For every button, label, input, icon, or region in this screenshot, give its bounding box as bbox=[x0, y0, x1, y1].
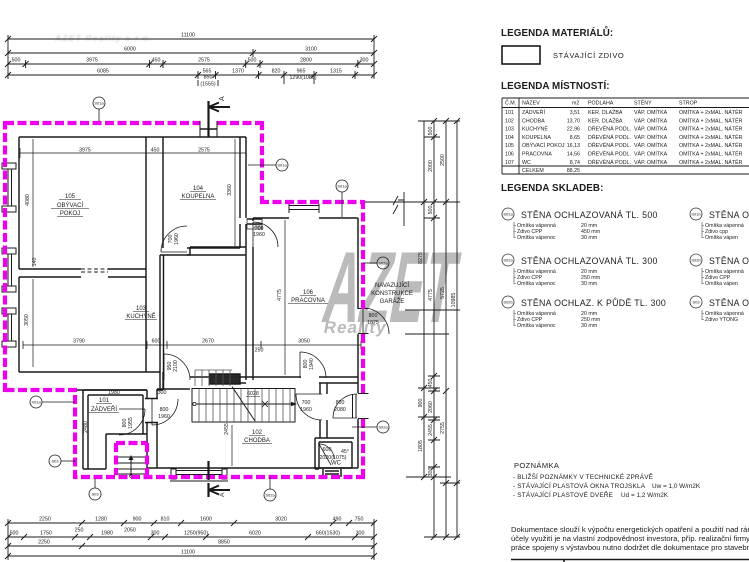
svg-text:A: A bbox=[219, 96, 226, 101]
svg-text:6020: 6020 bbox=[249, 531, 261, 537]
svg-text:3020: 3020 bbox=[275, 517, 287, 523]
svg-text:VÁP. OMÍTKA: VÁP. OMÍTKA bbox=[634, 142, 668, 149]
svg-text:LEGENDA MÍSTNOSTÍ:: LEGENDA MÍSTNOSTÍ: bbox=[501, 80, 610, 92]
svg-text:101: 101 bbox=[99, 398, 110, 404]
svg-text:STÁVAJÍCÍ ZDIVO: STÁVAJÍCÍ ZDIVO bbox=[553, 51, 624, 60]
svg-text:103: 103 bbox=[136, 306, 147, 312]
svg-text:3790: 3790 bbox=[73, 339, 85, 345]
svg-text:2755: 2755 bbox=[440, 422, 446, 434]
svg-text:2575: 2575 bbox=[198, 148, 210, 154]
svg-text:3050: 3050 bbox=[24, 314, 30, 326]
svg-text:Omítka vápenoc: Omítka vápenoc bbox=[517, 235, 556, 241]
svg-text:DŘEVĚNÁ PODL.: DŘEVĚNÁ PODL. bbox=[588, 125, 631, 133]
svg-text:1960: 1960 bbox=[174, 233, 180, 245]
svg-text:PODLAHA: PODLAHA bbox=[588, 101, 614, 107]
svg-text:OMÍTKA + 2xMAL. NÁTĚR: OMÍTKA + 2xMAL. NÁTĚR bbox=[679, 133, 743, 141]
svg-text:DŘEVĚNÁ PODL.: DŘEVĚNÁ PODL. bbox=[588, 133, 631, 141]
svg-text:106: 106 bbox=[303, 290, 314, 296]
svg-text:2500: 2500 bbox=[440, 154, 446, 166]
svg-text:3050: 3050 bbox=[298, 339, 310, 345]
svg-text:WC: WC bbox=[522, 160, 531, 166]
svg-text:1290(1080): 1290(1080) bbox=[289, 75, 316, 81]
svg-text:14,56: 14,56 bbox=[567, 152, 580, 158]
svg-text:Zdivo YTONG: Zdivo YTONG bbox=[705, 317, 738, 323]
svg-text:Č.M.: Č.M. bbox=[505, 100, 516, 107]
svg-text:3,51: 3,51 bbox=[570, 110, 580, 116]
svg-text:106: 106 bbox=[505, 152, 514, 158]
svg-text:700: 700 bbox=[302, 400, 311, 406]
svg-text:KUCHYNĚ: KUCHYNĚ bbox=[522, 125, 548, 133]
svg-text:101: 101 bbox=[505, 110, 514, 116]
svg-text:104: 104 bbox=[193, 186, 204, 192]
svg-text:- BLIŽŠÍ POZNÁMKY V TECHNICKÉ: - BLIŽŠÍ POZNÁMKY V TECHNICKÉ ZPRÁVĚ bbox=[513, 472, 653, 481]
svg-text:107: 107 bbox=[505, 160, 514, 166]
svg-text:PRACOVNA: PRACOVNA bbox=[522, 152, 552, 158]
svg-text:2000: 2000 bbox=[428, 160, 434, 172]
svg-text:(1555): (1555) bbox=[200, 82, 216, 88]
svg-text:1960: 1960 bbox=[253, 232, 265, 238]
svg-text:POKOJ: POKOJ bbox=[60, 211, 80, 217]
svg-text:OMÍTKA + 2xMAL. NÁTĚR: OMÍTKA + 2xMAL. NÁTĚR bbox=[679, 116, 743, 124]
svg-text:2670: 2670 bbox=[202, 339, 214, 345]
svg-text:1980: 1980 bbox=[108, 390, 120, 396]
svg-text:- STÁVAJÍCÍ PLASTOVÁ OKNA TROJ: - STÁVAJÍCÍ PLASTOVÁ OKNA TROJSKLA bbox=[513, 481, 646, 490]
svg-text:1960: 1960 bbox=[300, 407, 312, 413]
svg-text:8,74: 8,74 bbox=[570, 160, 580, 166]
svg-text:300: 300 bbox=[428, 468, 434, 477]
svg-text:490: 490 bbox=[333, 517, 342, 523]
svg-text:800: 800 bbox=[336, 400, 345, 406]
svg-text:1805: 1805 bbox=[418, 440, 424, 452]
svg-text:250: 250 bbox=[255, 348, 264, 354]
svg-text:900: 900 bbox=[133, 517, 142, 523]
svg-text:250: 250 bbox=[75, 528, 84, 534]
svg-text:S02b: S02b bbox=[691, 258, 701, 263]
svg-text:11100: 11100 bbox=[181, 550, 195, 556]
svg-text:OMÍTKA + 2xMAL. NÁTĚR: OMÍTKA + 2xMAL. NÁTĚR bbox=[679, 150, 743, 158]
svg-text:800: 800 bbox=[160, 407, 169, 413]
svg-text:účely využití je na vlastní zo: účely využití je na vlastní zodpovědnost… bbox=[511, 534, 749, 543]
svg-text:6000: 6000 bbox=[124, 47, 136, 53]
svg-text:4775: 4775 bbox=[428, 289, 434, 301]
svg-text:30 mm: 30 mm bbox=[581, 323, 598, 329]
svg-text:6085: 6085 bbox=[97, 69, 109, 75]
svg-text:2250: 2250 bbox=[39, 517, 51, 523]
svg-text:PRACOVNA: PRACOVNA bbox=[291, 298, 325, 304]
svg-text:NAVAZUJÍCÍ: NAVAZUJÍCÍ bbox=[375, 282, 409, 289]
svg-text:300: 300 bbox=[356, 531, 365, 537]
svg-text:1315: 1315 bbox=[330, 69, 342, 75]
svg-text:ZÁDVEŘÍ: ZÁDVEŘÍ bbox=[91, 405, 117, 413]
svg-text:Omítka vápen: Omítka vápen bbox=[705, 281, 738, 287]
svg-text:KER. DLAŽBA: KER. DLAŽBA bbox=[588, 108, 623, 116]
svg-text:800: 800 bbox=[369, 313, 378, 319]
svg-text:500: 500 bbox=[10, 531, 19, 537]
svg-text:S01a: S01a bbox=[94, 101, 104, 106]
svg-text:105: 105 bbox=[65, 194, 76, 200]
svg-text:600: 600 bbox=[323, 447, 332, 453]
svg-text:13,70: 13,70 bbox=[567, 118, 580, 124]
svg-text:30 mm: 30 mm bbox=[581, 281, 598, 287]
svg-text:WC: WC bbox=[331, 461, 342, 467]
svg-text:3360: 3360 bbox=[227, 184, 233, 196]
svg-text:2020(1075): 2020(1075) bbox=[319, 455, 346, 461]
svg-text:4080: 4080 bbox=[25, 194, 31, 206]
svg-text:A: A bbox=[219, 492, 226, 497]
svg-text:750: 750 bbox=[355, 517, 364, 523]
svg-text:LEGENDA MATERIÁLŮ:: LEGENDA MATERIÁLŮ: bbox=[501, 27, 613, 39]
svg-text:1960: 1960 bbox=[158, 414, 170, 420]
svg-text:STĚNA OCHLAZOVANÁ: STĚNA OCHLAZOVANÁ bbox=[709, 256, 749, 266]
svg-text:1250(950): 1250(950) bbox=[184, 531, 208, 537]
svg-text:LEGENDA SKLADEB:: LEGENDA SKLADEB: bbox=[501, 183, 603, 194]
svg-text:S01b: S01b bbox=[691, 212, 701, 217]
svg-text:Dokumentace slouží k výpočtu e: Dokumentace slouží k výpočtu energetický… bbox=[511, 525, 749, 534]
svg-text:S02a: S02a bbox=[265, 493, 275, 498]
svg-text:VÁP. OMÍTKA: VÁP. OMÍTKA bbox=[634, 134, 668, 141]
svg-text:STĚNA OCHLAZ. K P: STĚNA OCHLAZ. K P bbox=[709, 298, 749, 308]
svg-text:S02b: S02b bbox=[503, 300, 513, 305]
svg-text:CHODBA: CHODBA bbox=[244, 438, 270, 444]
svg-text:Omítka vápen: Omítka vápen bbox=[705, 235, 738, 241]
svg-text:5725: 5725 bbox=[440, 287, 446, 299]
svg-text:2080: 2080 bbox=[334, 407, 346, 413]
svg-text:102: 102 bbox=[252, 430, 263, 436]
svg-text:S01a: S01a bbox=[503, 212, 513, 217]
svg-text:500: 500 bbox=[428, 206, 434, 215]
svg-text:2250: 2250 bbox=[38, 540, 50, 546]
svg-text:104: 104 bbox=[505, 135, 514, 141]
svg-text:VÁP. OMÍTKA: VÁP. OMÍTKA bbox=[634, 159, 668, 166]
svg-text:2050: 2050 bbox=[124, 528, 136, 534]
svg-text:OBÝVACÍ POKOJ: OBÝVACÍ POKOJ bbox=[522, 142, 565, 149]
svg-text:- STÁVAJÍCÍ PLASTOVÉ DVEŘE: - STÁVAJÍCÍ PLASTOVÉ DVEŘE bbox=[513, 490, 613, 499]
svg-text:DŘEVĚNÁ PODL.: DŘEVĚNÁ PODL. bbox=[588, 141, 631, 149]
svg-text:105: 105 bbox=[505, 143, 514, 149]
svg-text:X01a: X01a bbox=[31, 400, 41, 405]
svg-text:VÁP. OMÍTKA: VÁP. OMÍTKA bbox=[634, 126, 668, 133]
svg-text:Uw = 1,0 W/m2K: Uw = 1,0 W/m2K bbox=[652, 483, 701, 490]
svg-text:m2: m2 bbox=[572, 101, 579, 107]
svg-text:2100: 2100 bbox=[173, 360, 179, 372]
svg-text:8,65: 8,65 bbox=[570, 135, 580, 141]
svg-text:3975: 3975 bbox=[86, 58, 98, 64]
svg-text:S01a: S01a bbox=[277, 163, 287, 168]
svg-text:OBÝVACÍ: OBÝVACÍ bbox=[57, 202, 84, 209]
svg-text:140: 140 bbox=[32, 258, 38, 267]
svg-text:S03: S03 bbox=[692, 300, 700, 305]
svg-text:Omítka vápenoc: Omítka vápenoc bbox=[517, 323, 556, 329]
svg-text:22,96: 22,96 bbox=[567, 127, 580, 133]
svg-text:NÁZEV: NÁZEV bbox=[522, 100, 540, 107]
svg-text:600: 600 bbox=[152, 339, 161, 345]
svg-text:660(1530): 660(1530) bbox=[316, 531, 340, 537]
svg-text:850: 850 bbox=[204, 75, 213, 81]
svg-text:88,25: 88,25 bbox=[567, 168, 580, 174]
svg-text:1875: 1875 bbox=[367, 320, 379, 326]
svg-text:10985: 10985 bbox=[451, 293, 457, 308]
svg-text:OMÍTKA + 2xMAL. NÁTĚR: OMÍTKA + 2xMAL. NÁTĚR bbox=[679, 141, 743, 149]
svg-text:POZNÁMKA: POZNÁMKA bbox=[514, 461, 559, 470]
svg-text:8275: 8275 bbox=[418, 252, 424, 264]
svg-text:S03: S03 bbox=[51, 459, 59, 464]
svg-text:Omítka vápenoc: Omítka vápenoc bbox=[517, 281, 556, 287]
svg-text:ZÁDVEŘÍ: ZÁDVEŘÍ bbox=[522, 108, 545, 116]
svg-text:300: 300 bbox=[158, 390, 167, 396]
svg-text:CELKEM: CELKEM bbox=[522, 168, 544, 174]
svg-text:450: 450 bbox=[428, 379, 434, 388]
svg-text:500: 500 bbox=[428, 127, 434, 136]
svg-text:820: 820 bbox=[272, 69, 281, 75]
svg-text:DŘEVĚNÁ PODL.: DŘEVĚNÁ PODL. bbox=[588, 158, 631, 166]
svg-text:500: 500 bbox=[12, 58, 21, 64]
svg-text:STĚNY: STĚNY bbox=[634, 99, 652, 107]
svg-text:2480: 2480 bbox=[83, 421, 89, 433]
svg-text:8850: 8850 bbox=[218, 540, 230, 546]
svg-text:DŘEVĚNÁ PODL.: DŘEVĚNÁ PODL. bbox=[588, 150, 631, 158]
svg-text:CHODBA: CHODBA bbox=[522, 118, 545, 124]
svg-text:30 mm: 30 mm bbox=[581, 235, 598, 241]
svg-text:2455: 2455 bbox=[224, 423, 230, 435]
svg-text:965: 965 bbox=[297, 69, 306, 75]
svg-text:1600: 1600 bbox=[200, 517, 212, 523]
svg-text:S01a: S01a bbox=[337, 184, 347, 189]
svg-text:1750: 1750 bbox=[40, 531, 52, 537]
svg-text:STĚNA OCHLAZ. K PŮDĚ TL. 300: STĚNA OCHLAZ. K PŮDĚ TL. 300 bbox=[521, 297, 666, 308]
svg-text:2060: 2060 bbox=[428, 401, 434, 413]
svg-text:1280: 1280 bbox=[95, 517, 107, 523]
svg-text:900: 900 bbox=[418, 399, 424, 408]
svg-text:300: 300 bbox=[151, 531, 160, 537]
svg-text:45°: 45° bbox=[341, 449, 349, 455]
svg-text:Ud = 1,2 W/m2K: Ud = 1,2 W/m2K bbox=[621, 492, 669, 499]
svg-text:300: 300 bbox=[360, 58, 369, 64]
svg-text:VÁP. OMÍTKA: VÁP. OMÍTKA bbox=[634, 151, 668, 158]
svg-text:OMÍTKA + 2xMAL. NÁTĚR: OMÍTKA + 2xMAL. NÁTĚR bbox=[679, 125, 743, 133]
svg-text:práce spojeny s výstavbou nutn: práce spojeny s výstavbou nutno dodržet … bbox=[511, 543, 749, 552]
svg-text:KOUPELNA: KOUPELNA bbox=[522, 135, 551, 141]
svg-text:STĚNA OCHLAZOVANÁ TL. 500: STĚNA OCHLAZOVANÁ TL. 500 bbox=[521, 210, 658, 220]
svg-text:1940: 1940 bbox=[309, 358, 315, 370]
svg-text:102: 102 bbox=[505, 118, 514, 124]
svg-text:450: 450 bbox=[151, 148, 160, 154]
svg-text:1980: 1980 bbox=[101, 531, 113, 537]
svg-text:2800: 2800 bbox=[300, 58, 312, 64]
svg-text:3975: 3975 bbox=[79, 148, 91, 154]
svg-text:S02a: S02a bbox=[378, 261, 388, 266]
svg-text:450: 450 bbox=[152, 58, 161, 64]
svg-text:S02a: S02a bbox=[503, 258, 513, 263]
svg-text:STROP: STROP bbox=[679, 101, 698, 107]
svg-text:4775: 4775 bbox=[277, 289, 283, 301]
svg-text:500: 500 bbox=[248, 58, 257, 64]
svg-text:103: 103 bbox=[505, 127, 514, 133]
svg-text:11100: 11100 bbox=[181, 33, 195, 39]
svg-text:16,13: 16,13 bbox=[567, 143, 580, 149]
svg-text:1370: 1370 bbox=[232, 69, 244, 75]
svg-text:VÁP. OMÍTKA: VÁP. OMÍTKA bbox=[634, 117, 668, 124]
svg-text:GARÁŽE: GARÁŽE bbox=[380, 297, 405, 305]
svg-text:6028: 6028 bbox=[247, 391, 259, 397]
svg-text:OMÍTKA + 2xMAL. NÁTĚR: OMÍTKA + 2xMAL. NÁTĚR bbox=[679, 158, 743, 166]
svg-text:2575: 2575 bbox=[198, 58, 210, 64]
svg-text:STĚNA OCHLAZOVANÁ TL. 300: STĚNA OCHLAZOVANÁ TL. 300 bbox=[521, 256, 658, 266]
svg-text:KOUPELNA: KOUPELNA bbox=[182, 194, 215, 200]
svg-text:2455: 2455 bbox=[428, 424, 434, 436]
svg-text:1955: 1955 bbox=[128, 417, 134, 429]
svg-text:S02a: S02a bbox=[378, 425, 388, 430]
svg-text:810: 810 bbox=[161, 517, 170, 523]
svg-text:KER. DLAŽBA: KER. DLAŽBA bbox=[588, 116, 623, 124]
svg-text:VÁP. OMÍTKA: VÁP. OMÍTKA bbox=[634, 109, 668, 116]
svg-text:S03: S03 bbox=[91, 492, 99, 497]
svg-text:AZET Reality s.r.o.: AZET Reality s.r.o. bbox=[54, 33, 152, 43]
svg-text:STĚNA OCHLAZOVANÁ: STĚNA OCHLAZOVANÁ bbox=[709, 210, 749, 220]
svg-text:KONSTRUKCE: KONSTRUKCE bbox=[371, 291, 413, 297]
svg-text:KUCHYNĚ: KUCHYNĚ bbox=[126, 312, 155, 320]
svg-text:OMÍTKA + 2xMAL. NÁTĚR: OMÍTKA + 2xMAL. NÁTĚR bbox=[679, 108, 743, 116]
svg-text:3100: 3100 bbox=[305, 47, 317, 53]
